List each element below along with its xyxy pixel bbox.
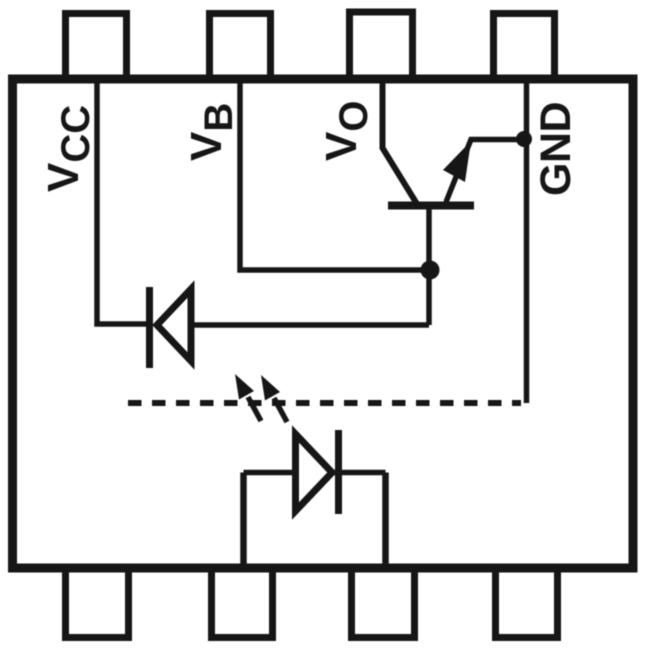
wire GND pin down to dashed boundary <box>524 79 530 403</box>
wire LED box left <box>240 473 247 569</box>
wire VCC pin to photodiode cathode <box>97 79 146 324</box>
wire LED anode <box>244 470 296 476</box>
light arrow 2 <box>274 398 287 422</box>
svg-text:GND: GND <box>532 102 580 196</box>
bottom pin 2 <box>212 568 273 638</box>
wire LED cathode <box>332 470 386 476</box>
package body outline <box>13 79 634 568</box>
dashed isolation line <box>128 400 521 406</box>
svg-text:VB: VB <box>182 103 241 161</box>
transistor Q1 emitter arrowhead <box>443 141 471 182</box>
top pin 4 <box>494 14 555 81</box>
svg-text:VCC: VCC <box>39 105 98 192</box>
bottom pin 3 <box>352 568 415 638</box>
photodiode D1 triangle <box>157 289 191 361</box>
wire LED box right <box>382 473 389 569</box>
node emitter-GND junction <box>516 131 532 147</box>
transistor Q1 emitter lead <box>446 140 520 203</box>
light arrow 1 <box>248 397 261 421</box>
wire VB pin to base node <box>240 79 429 270</box>
top pin 1 <box>66 14 127 81</box>
photodiode D1 cathode bar <box>146 287 153 368</box>
svg-text:VO: VO <box>317 101 376 161</box>
LED D2 triangle <box>296 434 333 511</box>
wire VO pin / collector lead <box>383 79 418 204</box>
LED D2 cathode bar <box>335 430 342 514</box>
bottom pin 4 <box>496 568 558 638</box>
top pin 2 <box>210 14 271 81</box>
top pin 3 <box>350 12 413 80</box>
wire base vertical <box>426 205 432 325</box>
bottom pin 1 <box>66 568 129 638</box>
wire photodiode anode to base node <box>191 322 429 328</box>
node base junction <box>421 261 440 280</box>
transistor Q1 base bar <box>388 202 474 210</box>
